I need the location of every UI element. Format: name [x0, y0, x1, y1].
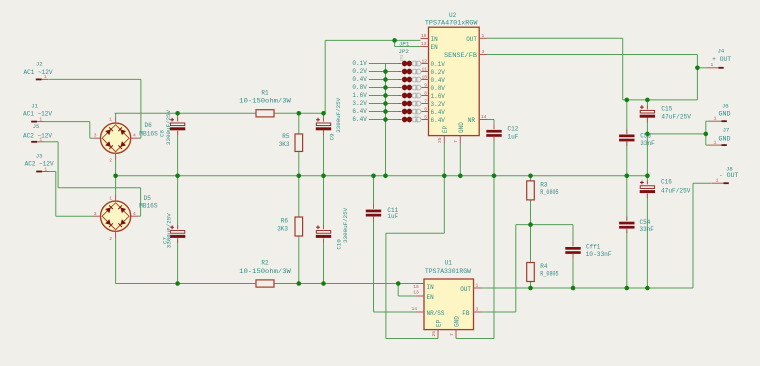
- capacitor C10 3300uF/25V: [316, 207, 349, 249]
- svg-text:JP1: JP1: [399, 41, 410, 48]
- bridge rectifier D5 MB16S: [94, 195, 158, 242]
- svg-text:13: 13: [413, 290, 419, 296]
- svg-text:JP9: JP9: [416, 109, 420, 115]
- svg-text:3.2V: 3.2V: [431, 101, 446, 108]
- svg-text:7: 7: [424, 99, 427, 105]
- wire D6 pin2 to mid rail: [115, 160, 117, 176]
- svg-text:47uF/25V: 47uF/25V: [661, 113, 691, 120]
- wire U2 OUT net: [487, 38, 697, 100]
- connector J1 (AC1 ~12V): [23, 103, 52, 123]
- wire U1 FB riser: [482, 225, 516, 312]
- connector J8 (- OUT): [711, 165, 738, 183]
- capacitor Cff1 10-33nF: [565, 242, 612, 259]
- svg-text:10-33nF: 10-33nF: [586, 251, 612, 258]
- svg-text:JP8: JP8: [416, 101, 420, 107]
- wire C53 C54 column: [626, 100, 628, 288]
- svg-text:0.8V: 0.8V: [431, 85, 446, 92]
- resistor R6 3K3: [277, 217, 302, 236]
- svg-text:7: 7: [453, 140, 459, 143]
- svg-text:U1: U1: [445, 260, 453, 267]
- wire C15 C16 column: [646, 100, 648, 288]
- svg-text:6.4V: 6.4V: [431, 117, 446, 124]
- svg-text:AC2 ~12V: AC2 ~12V: [23, 133, 52, 140]
- svg-text:33nF: 33nF: [640, 226, 655, 233]
- svg-text:AC1 ~12V: AC1 ~12V: [23, 111, 52, 118]
- connector J3 (AC2 ~12V): [25, 152, 54, 172]
- svg-text:3300uF/25V: 3300uF/25V: [335, 97, 342, 133]
- capacitor C11 1uF: [366, 204, 399, 222]
- wire top rail (+V unregulated): [115, 112, 326, 114]
- svg-text:JP6: JP6: [416, 85, 420, 91]
- svg-text:10-150ohm/3W: 10-150ohm/3W: [239, 98, 291, 105]
- svg-text:13: 13: [421, 41, 427, 47]
- svg-text:1: 1: [714, 140, 717, 146]
- svg-text:R_0805: R_0805: [540, 189, 559, 196]
- svg-text:1: 1: [109, 117, 112, 123]
- svg-text:JP2: JP2: [398, 48, 409, 55]
- svg-text:1uF: 1uF: [387, 213, 398, 220]
- wire jumper bus: [385, 64, 387, 176]
- wire U1 EP loop: [386, 176, 444, 339]
- svg-text:J7: J7: [723, 127, 730, 134]
- svg-text:R3: R3: [540, 182, 548, 189]
- wire D5 pin1 to mid rail: [115, 176, 117, 195]
- wire C9 column riser to U2 IN: [325, 40, 420, 113]
- svg-text:+ OUT: + OUT: [712, 56, 731, 63]
- svg-text:C12: C12: [508, 126, 519, 133]
- svg-text:3300uF/25V: 3300uF/25V: [165, 109, 172, 145]
- svg-text:R5: R5: [282, 133, 290, 140]
- wire C9 column: [323, 113, 325, 176]
- svg-text:R_0805: R_0805: [540, 271, 559, 278]
- wire C8 column: [177, 113, 179, 176]
- svg-text:GND: GND: [719, 136, 731, 143]
- svg-text:0.1V: 0.1V: [431, 61, 446, 68]
- svg-text:FB: FB: [462, 310, 470, 317]
- svg-text:C15: C15: [661, 106, 672, 113]
- svg-text:1: 1: [714, 116, 717, 122]
- wire R3 R4 column: [530, 176, 532, 288]
- wire J1 to D6 pin3: [43, 122, 93, 139]
- wire mid rail (0V): [116, 175, 648, 177]
- op-amp U2 TPS7A4701xRGW: [421, 12, 488, 143]
- svg-text:EN: EN: [427, 294, 435, 301]
- capacitor C15 47uF/25V: [640, 105, 692, 122]
- wire U1 GND to mid rail via C12 column: [456, 120, 494, 339]
- jumper block JP1 JP2 with voltage select rows: [352, 41, 421, 124]
- wire U2 EP GND to mid rail: [444, 144, 460, 176]
- junction dots misc: [392, 38, 708, 290]
- svg-text:NR: NR: [468, 117, 476, 124]
- connector J5 (AC2 ~12V): [23, 123, 52, 143]
- svg-text:33nF: 33nF: [640, 140, 655, 147]
- svg-text:J4: J4: [718, 48, 725, 55]
- svg-text:MB16S: MB16S: [139, 203, 158, 210]
- junction dots bottom rail: [175, 281, 400, 286]
- svg-text:J1: J1: [31, 103, 38, 110]
- resistor R3 R_0805: [527, 181, 559, 200]
- svg-text:7: 7: [449, 333, 455, 336]
- svg-text:IN: IN: [431, 36, 439, 43]
- connector J2 (AC1 ~12V): [24, 61, 53, 81]
- svg-text:1: 1: [109, 196, 112, 202]
- wire FB node horizontal: [516, 224, 573, 226]
- svg-text:J6: J6: [722, 103, 729, 110]
- svg-text:OUT: OUT: [466, 36, 477, 43]
- svg-text:2: 2: [109, 158, 112, 164]
- junction dots mid rail: [113, 174, 649, 179]
- svg-text:15: 15: [421, 33, 427, 39]
- svg-text:11: 11: [421, 67, 427, 73]
- capacitor C16 47uF/25V: [640, 179, 691, 198]
- svg-text:JP4: JP4: [416, 69, 420, 75]
- svg-text:C53: C53: [640, 132, 651, 139]
- svg-text:IN: IN: [427, 284, 435, 291]
- svg-text:3K3: 3K3: [279, 141, 290, 148]
- svg-text:EN: EN: [431, 44, 439, 51]
- svg-text:15: 15: [413, 284, 419, 290]
- svg-text:SENSE/FB: SENSE/FB: [444, 52, 477, 59]
- svg-text:25: 25: [437, 137, 443, 143]
- svg-text:6.4V: 6.4V: [352, 116, 367, 123]
- svg-text:12: 12: [421, 59, 427, 65]
- svg-text:AC2 ~12V: AC2 ~12V: [25, 160, 54, 167]
- svg-text:9: 9: [424, 83, 427, 89]
- op-amp U1 TPS7A3301RGW: [412, 260, 482, 338]
- wire C15 GND to J6 J7: [647, 121, 709, 145]
- svg-text:GND: GND: [458, 122, 465, 133]
- svg-text:14: 14: [481, 114, 487, 120]
- wire bottom rail (-V unregulated): [115, 283, 416, 285]
- resistor R1 10-150ohm/3W: [239, 89, 291, 117]
- connector J4 (+ OUT): [706, 48, 731, 68]
- svg-text:U2: U2: [449, 12, 457, 19]
- wire CTRL cap column: [572, 225, 574, 288]
- svg-text:Cff1: Cff1: [586, 243, 601, 250]
- svg-text:47uF/25V: 47uF/25V: [661, 187, 691, 194]
- connector J6 (GND): [709, 103, 731, 122]
- svg-text:R2: R2: [261, 260, 269, 267]
- svg-text:0.2V: 0.2V: [352, 68, 367, 75]
- svg-text:1: 1: [482, 33, 485, 39]
- svg-text:3: 3: [482, 49, 485, 55]
- wire U2 SENSE/FB to J4: [487, 55, 706, 100]
- svg-text:AC1 ~12V: AC1 ~12V: [24, 69, 53, 76]
- svg-text:TPS7A3301RGW: TPS7A3301RGW: [425, 268, 471, 275]
- svg-text:3: 3: [94, 211, 97, 217]
- capacitor C53 33nF: [619, 130, 655, 148]
- svg-text:EP: EP: [442, 125, 449, 133]
- svg-text:C54: C54: [640, 219, 651, 226]
- wire C7 column: [177, 176, 179, 284]
- svg-text:JP3: JP3: [416, 61, 420, 67]
- svg-text:JP5: JP5: [416, 77, 420, 83]
- svg-text:2: 2: [109, 236, 112, 242]
- resistor R5 3K3: [279, 133, 303, 152]
- wire J5 to D5 pin4: [43, 142, 140, 216]
- svg-text:1.6V: 1.6V: [431, 93, 446, 100]
- svg-text:14: 14: [412, 306, 418, 312]
- capacitor C7 3300uF/25V: [161, 213, 185, 249]
- bridge rectifier D6 MB16S: [94, 117, 159, 164]
- svg-text:3300uF/25V: 3300uF/25V: [165, 213, 172, 249]
- svg-text:C9: C9: [328, 133, 335, 140]
- svg-text:NR/SS: NR/SS: [427, 310, 445, 317]
- svg-text:0.1V: 0.1V: [352, 60, 367, 67]
- wire U1 OUT to J8: [482, 183, 712, 288]
- svg-text:R1: R1: [261, 89, 269, 96]
- wire D5 pin2 to bottom rail: [115, 238, 117, 284]
- wire C10 column: [323, 176, 325, 284]
- svg-text:1.6V: 1.6V: [352, 92, 367, 99]
- svg-text:JP7: JP7: [416, 93, 420, 99]
- wire R6 column: [298, 176, 300, 284]
- svg-text:GND: GND: [454, 316, 461, 327]
- svg-text:0.8V: 0.8V: [352, 84, 367, 91]
- resistor R4 R_0805: [527, 263, 559, 282]
- svg-text:0.2V: 0.2V: [431, 69, 446, 76]
- capacitor C12 1uF: [486, 125, 518, 142]
- svg-text:1uF: 1uF: [508, 134, 519, 141]
- svg-text:4: 4: [133, 133, 136, 139]
- svg-text:R6: R6: [281, 217, 289, 224]
- svg-text:3.2V: 3.2V: [352, 100, 367, 107]
- svg-text:10-150ohm/3W: 10-150ohm/3W: [239, 268, 291, 275]
- wire U1 IN-EN tie: [398, 284, 416, 297]
- svg-text:C16: C16: [661, 179, 672, 186]
- svg-text:0.4V: 0.4V: [431, 77, 446, 84]
- svg-text:GND: GND: [719, 110, 731, 117]
- wire R5 column: [298, 113, 300, 176]
- svg-text:5: 5: [424, 115, 427, 121]
- resistor R2 10-150ohm/3W: [239, 260, 291, 288]
- svg-text:1: 1: [476, 283, 479, 289]
- svg-text:D5: D5: [144, 195, 152, 202]
- svg-text:25: 25: [431, 331, 437, 337]
- svg-text:4: 4: [133, 211, 136, 217]
- svg-text:3: 3: [94, 133, 97, 139]
- svg-text:3K3: 3K3: [277, 226, 288, 233]
- svg-text:MB16S: MB16S: [139, 131, 158, 138]
- connector J7 (GND): [709, 127, 731, 146]
- svg-text:OUT: OUT: [460, 286, 471, 293]
- capacitor C9 3300uF/25V: [316, 97, 342, 140]
- svg-text:EP: EP: [436, 319, 443, 327]
- svg-text:J2: J2: [36, 61, 43, 68]
- svg-text:10: 10: [421, 75, 427, 81]
- svg-text:3: 3: [476, 306, 479, 312]
- svg-text:D6: D6: [145, 122, 153, 129]
- svg-text:J3: J3: [36, 152, 43, 159]
- wire U2 IN-EN tie: [395, 40, 421, 46]
- junction dots top rail: [175, 111, 326, 116]
- svg-text:TPS7A4701xRGW: TPS7A4701xRGW: [425, 19, 478, 26]
- wire C11 column to U1 NR/SS: [374, 176, 416, 312]
- svg-text:0.4V: 0.4V: [352, 76, 367, 83]
- wire J3 to D5 pin3: [48, 172, 94, 217]
- wire U2 NR to C12: [488, 119, 494, 121]
- svg-text:8: 8: [424, 91, 427, 97]
- svg-text:6.4V: 6.4V: [352, 108, 367, 115]
- svg-text:6.4V: 6.4V: [431, 109, 446, 116]
- svg-text:J5: J5: [33, 123, 40, 130]
- svg-text:R4: R4: [540, 263, 548, 270]
- capacitor C8 3300uF/25V: [159, 109, 186, 145]
- wire J2 to D6 pin4: [48, 79, 141, 138]
- svg-text:JP10: JP10: [416, 115, 420, 124]
- capacitor C54 33nF: [619, 217, 654, 234]
- svg-text:6: 6: [424, 107, 427, 113]
- svg-text:3300uF/25V: 3300uF/25V: [342, 207, 349, 243]
- wire D6 pin1 to top rail: [115, 113, 117, 117]
- svg-text:- OUT: - OUT: [719, 172, 739, 179]
